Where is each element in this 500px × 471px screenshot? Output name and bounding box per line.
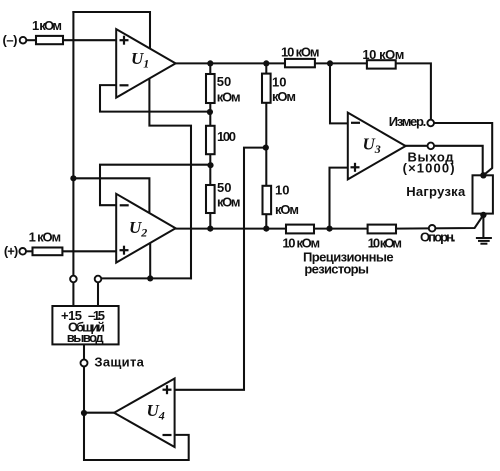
node: U3 + input junction bbox=[326, 226, 332, 232]
pin marks: U2 + input bbox=[120, 246, 129, 255]
node: load top junction bbox=[480, 172, 486, 178]
svg-text:кОм: кОм bbox=[275, 202, 299, 217]
wire: U3 + input down to bottom line bbox=[330, 168, 348, 229]
node: load bottom junction bbox=[480, 212, 486, 218]
svg-text:(×1000): (×1000) bbox=[403, 160, 455, 175]
op-amp U3 bbox=[348, 113, 406, 180]
wire: R 10kOm h4 to reference terminal and load bottom bbox=[396, 215, 483, 229]
terminal: Zashchita (guard) bbox=[81, 360, 88, 367]
svg-text:(+): (+) bbox=[4, 244, 18, 259]
node: 100/50k junction bbox=[207, 162, 213, 168]
svg-text:кОм: кОм bbox=[217, 89, 241, 104]
svg-text:Защита: Защита bbox=[94, 354, 144, 369]
svg-text:кОм: кОм bbox=[272, 89, 296, 104]
node: +15 branch junction bbox=[70, 175, 76, 181]
wire: R 10kOm h2 to sense terminal bbox=[396, 63, 431, 119]
resistor 10 kOm h1 bbox=[285, 59, 315, 67]
wire: sense line from Izmer terminal to load top bbox=[434, 123, 492, 175]
wire: guard tap from divider midpoint down to U4 + input bbox=[175, 148, 266, 390]
resistor R 1kOm (bottom input) bbox=[33, 248, 63, 256]
svg-text:50: 50 bbox=[217, 180, 231, 195]
pin marks: U1 + input bbox=[120, 36, 129, 45]
pin marks: U3 - input bbox=[351, 122, 360, 124]
svg-text:(–): (–) bbox=[3, 32, 18, 47]
wire: +15 supply rail left vertical (x=73) bbox=[72, 12, 74, 276]
pin marks: U4 + input bbox=[163, 385, 172, 394]
node: guard node junction bbox=[81, 410, 87, 416]
resistor 10 kOm h4 bbox=[368, 225, 396, 234]
resistor 50 kOm (lower) bbox=[206, 185, 215, 213]
wire: U2 output line to R 10kOm h3 bbox=[176, 228, 286, 230]
wire: U4 feedback loop bbox=[84, 413, 189, 460]
node: U2 output junction bbox=[207, 226, 213, 232]
svg-text:вывод: вывод bbox=[67, 330, 105, 345]
node: U1 output junction bbox=[207, 60, 213, 66]
node: 50k/100 junction bbox=[207, 109, 213, 115]
resistor 10 kOm (divider lower) bbox=[263, 186, 272, 214]
wire: 50k column stubs bbox=[209, 63, 211, 74]
op-amp U1 bbox=[116, 29, 175, 98]
op-amp U4 (guard buffer, points left) bbox=[114, 379, 175, 448]
load resistor Nagruzka bbox=[473, 175, 493, 213]
terminal: Izmer. (sense) bbox=[427, 120, 434, 127]
svg-text:кОм: кОм bbox=[217, 195, 241, 210]
wire: (+) input terminal to R 1kOm bbox=[26, 250, 33, 252]
resistor 10 kOm h3 bbox=[286, 225, 314, 234]
svg-text:1 кОм: 1 кОм bbox=[32, 18, 62, 33]
wire: U4 output to guard node bbox=[84, 412, 114, 414]
terminal: -15 bbox=[95, 276, 102, 283]
wire: U1 output line to R 10kOm h1 bbox=[176, 62, 285, 64]
resistor 10 kOm (divider upper) bbox=[262, 74, 271, 103]
wire: +15 branch to U2 V+ pin bbox=[73, 178, 149, 213]
svg-text:10: 10 bbox=[275, 183, 289, 198]
wire: R 10kOm h1 to R 10kOm h2 bbox=[315, 62, 367, 64]
wire: node to U3 - input bbox=[330, 63, 348, 123]
terminal: (-) input bbox=[20, 37, 27, 44]
ground symbol bbox=[477, 238, 491, 244]
wire: +15 supply top run to U1 V+ pin bbox=[73, 12, 150, 49]
svg-text:резисторы: резисторы bbox=[304, 262, 369, 277]
node: U3 - input junction bbox=[327, 60, 333, 66]
svg-text:10 кОм: 10 кОм bbox=[362, 47, 404, 62]
svg-text:Измер.: Измер. bbox=[389, 114, 427, 129]
node: divider top junction bbox=[263, 60, 269, 66]
wire: (-) input terminal to R 1kOm bbox=[26, 39, 36, 41]
node: guard tap junction bbox=[263, 145, 269, 151]
wire: R 10kOm h3 to R 10kOm h4 bbox=[314, 228, 368, 230]
wire: U2 V- pin to -15 rail bbox=[149, 243, 151, 278]
wire: U1 V- pin down and right to -15 rail bbox=[149, 79, 191, 279]
node: divider bottom junction bbox=[263, 226, 269, 232]
wire: -15 rail horizontal bbox=[98, 277, 191, 279]
svg-text:Опорн.: Опорн. bbox=[420, 230, 456, 245]
terminal: Vykhod (output) bbox=[428, 143, 435, 150]
wire: U3 output through Vykhod terminal to load top bbox=[406, 146, 483, 176]
resistor 10 kOm h2 bbox=[367, 60, 396, 68]
terminal: +15 bbox=[70, 276, 77, 283]
svg-text:Нагрузка: Нагрузка bbox=[406, 184, 466, 199]
pin marks: U4 - input bbox=[163, 434, 172, 436]
wire: -15 terminal to power box bbox=[97, 279, 99, 306]
terminal: Oporn. (reference) bbox=[429, 225, 436, 232]
wire: Zashchita terminal down to guard node bbox=[83, 366, 85, 413]
svg-text:10: 10 bbox=[272, 75, 286, 90]
svg-text:50: 50 bbox=[217, 74, 231, 89]
pin marks: U3 + input bbox=[351, 163, 360, 172]
svg-text:1 кОм: 1 кОм bbox=[29, 230, 62, 245]
resistor 50 kOm (upper) bbox=[206, 74, 215, 103]
power box +15/-15 common bbox=[52, 306, 118, 344]
resistor 100 bbox=[206, 126, 215, 154]
terminal: (+) input bbox=[19, 248, 26, 255]
resistor R 1kOm (top input) bbox=[36, 36, 63, 44]
wire: load bottom to ground bbox=[482, 215, 484, 238]
node: -15 rail junction bbox=[147, 275, 153, 281]
wire: U2 feedback (- input to 100/50k junction) bbox=[100, 165, 210, 206]
wire: U1 feedback (- input to 50k/100 junction) bbox=[100, 85, 210, 112]
wire: 10k divider column stubs bbox=[265, 63, 267, 73]
svg-text:100: 100 bbox=[217, 129, 236, 144]
wire: R 1kOm to U1 + input bbox=[63, 39, 116, 41]
wire: power box common to Zashchita terminal bbox=[83, 344, 85, 360]
svg-text:10 кОм: 10 кОм bbox=[281, 45, 320, 60]
wire: R 1kOm to U2 + input bbox=[62, 250, 116, 252]
op-amp U2 bbox=[116, 194, 175, 263]
pin marks: U2 - input bbox=[120, 204, 129, 206]
pin marks: U1 - input bbox=[120, 84, 129, 86]
wire: +15 terminal to power box bbox=[72, 279, 74, 306]
